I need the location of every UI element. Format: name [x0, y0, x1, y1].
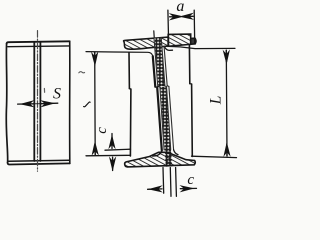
dimension l: vertical line with outward arrows [94, 52, 96, 62]
svg-text:c: c [187, 172, 194, 188]
right beam edge lower [191, 84, 194, 156]
right toe line / extension of L under top flange [168, 46, 235, 48]
web seam line upper inner-right [161, 38, 165, 87]
svg-text:L: L [207, 96, 224, 106]
left beam edge lower [129, 89, 132, 156]
right beam edge jog [190, 83, 192, 85]
web seam line lower inner-right [167, 87, 171, 150]
flange splice seam / extension line a2 [193, 10, 196, 43]
splice jog connectors in web [155, 86, 169, 88]
right top fillet weld [165, 47, 173, 51]
svg-text:c: c [94, 127, 110, 134]
web seam line lower inner-left [160, 87, 164, 150]
dimension a arrows [170, 16, 181, 18]
plate right edge [69, 41, 71, 163]
left beam edge jog [129, 88, 131, 90]
scan artifact blip [43, 89, 45, 93]
seam axis centerline (dash-dot) [37, 31, 39, 172]
web seam line upper inner-left [154, 38, 158, 86]
dimension c (bottom): line and arrows [148, 188, 150, 190]
flange splice seam / extension line a1 [167, 10, 170, 45]
plate top edge line 2 [8, 45, 70, 48]
bottom left fillet weld [153, 150, 162, 156]
svg-text:S: S [53, 86, 61, 103]
extension line B (lower) for dimension c left [86, 154, 130, 157]
web seam line upper outer-right [164, 47, 167, 86]
plate bottom edge line 2 [8, 163, 70, 165]
plate top edge line 1 [7, 41, 70, 43]
top flange piece P2 (between splice and edge) [168, 34, 191, 46]
scan artifact squiggle [79, 72, 85, 73]
web seam line lower outer-right [169, 86, 174, 149]
dimension c (left): outside arrows [111, 134, 113, 149]
web seam heavy line lower [157, 87, 162, 150]
web seam crosshatched bead upper [155, 37, 166, 86]
web seam extension line 3 below flange [175, 168, 178, 197]
web seam heavy line upper [153, 56, 156, 87]
right beam edge upper [188, 45, 190, 83]
label l (rotated) [84, 102, 91, 107]
top flange piece P3 (right tip) [191, 38, 196, 44]
bottom right fillet weld [174, 150, 178, 155]
left beam edge upper [128, 52, 130, 88]
dimension L: vertical line with outward arrows [225, 50, 227, 62]
web axis mark above flange [153, 31, 156, 39]
bottom flange [125, 152, 196, 167]
web seam crosshatched bead lower [160, 87, 172, 167]
plate left edge (break line) [6, 44, 7, 163]
extension line A (upper) for dimension c left [105, 149, 131, 150]
weld seam right edge line [39, 42, 41, 161]
plate bottom edge line 1 [9, 160, 70, 161]
extension line of l / fillet toe under top flange [86, 52, 153, 57]
web seam extension line 2 below flange [169, 168, 172, 197]
dimension S: leader with inward arrows [18, 103, 34, 105]
web seam extension line 1 below flange [162, 168, 165, 194]
svg-text:a: a [176, 0, 184, 15]
extension line for L bottom [192, 156, 237, 157]
top flange piece P1 (left of splice) [124, 37, 169, 49]
weld seam left edge line [33, 42, 35, 161]
